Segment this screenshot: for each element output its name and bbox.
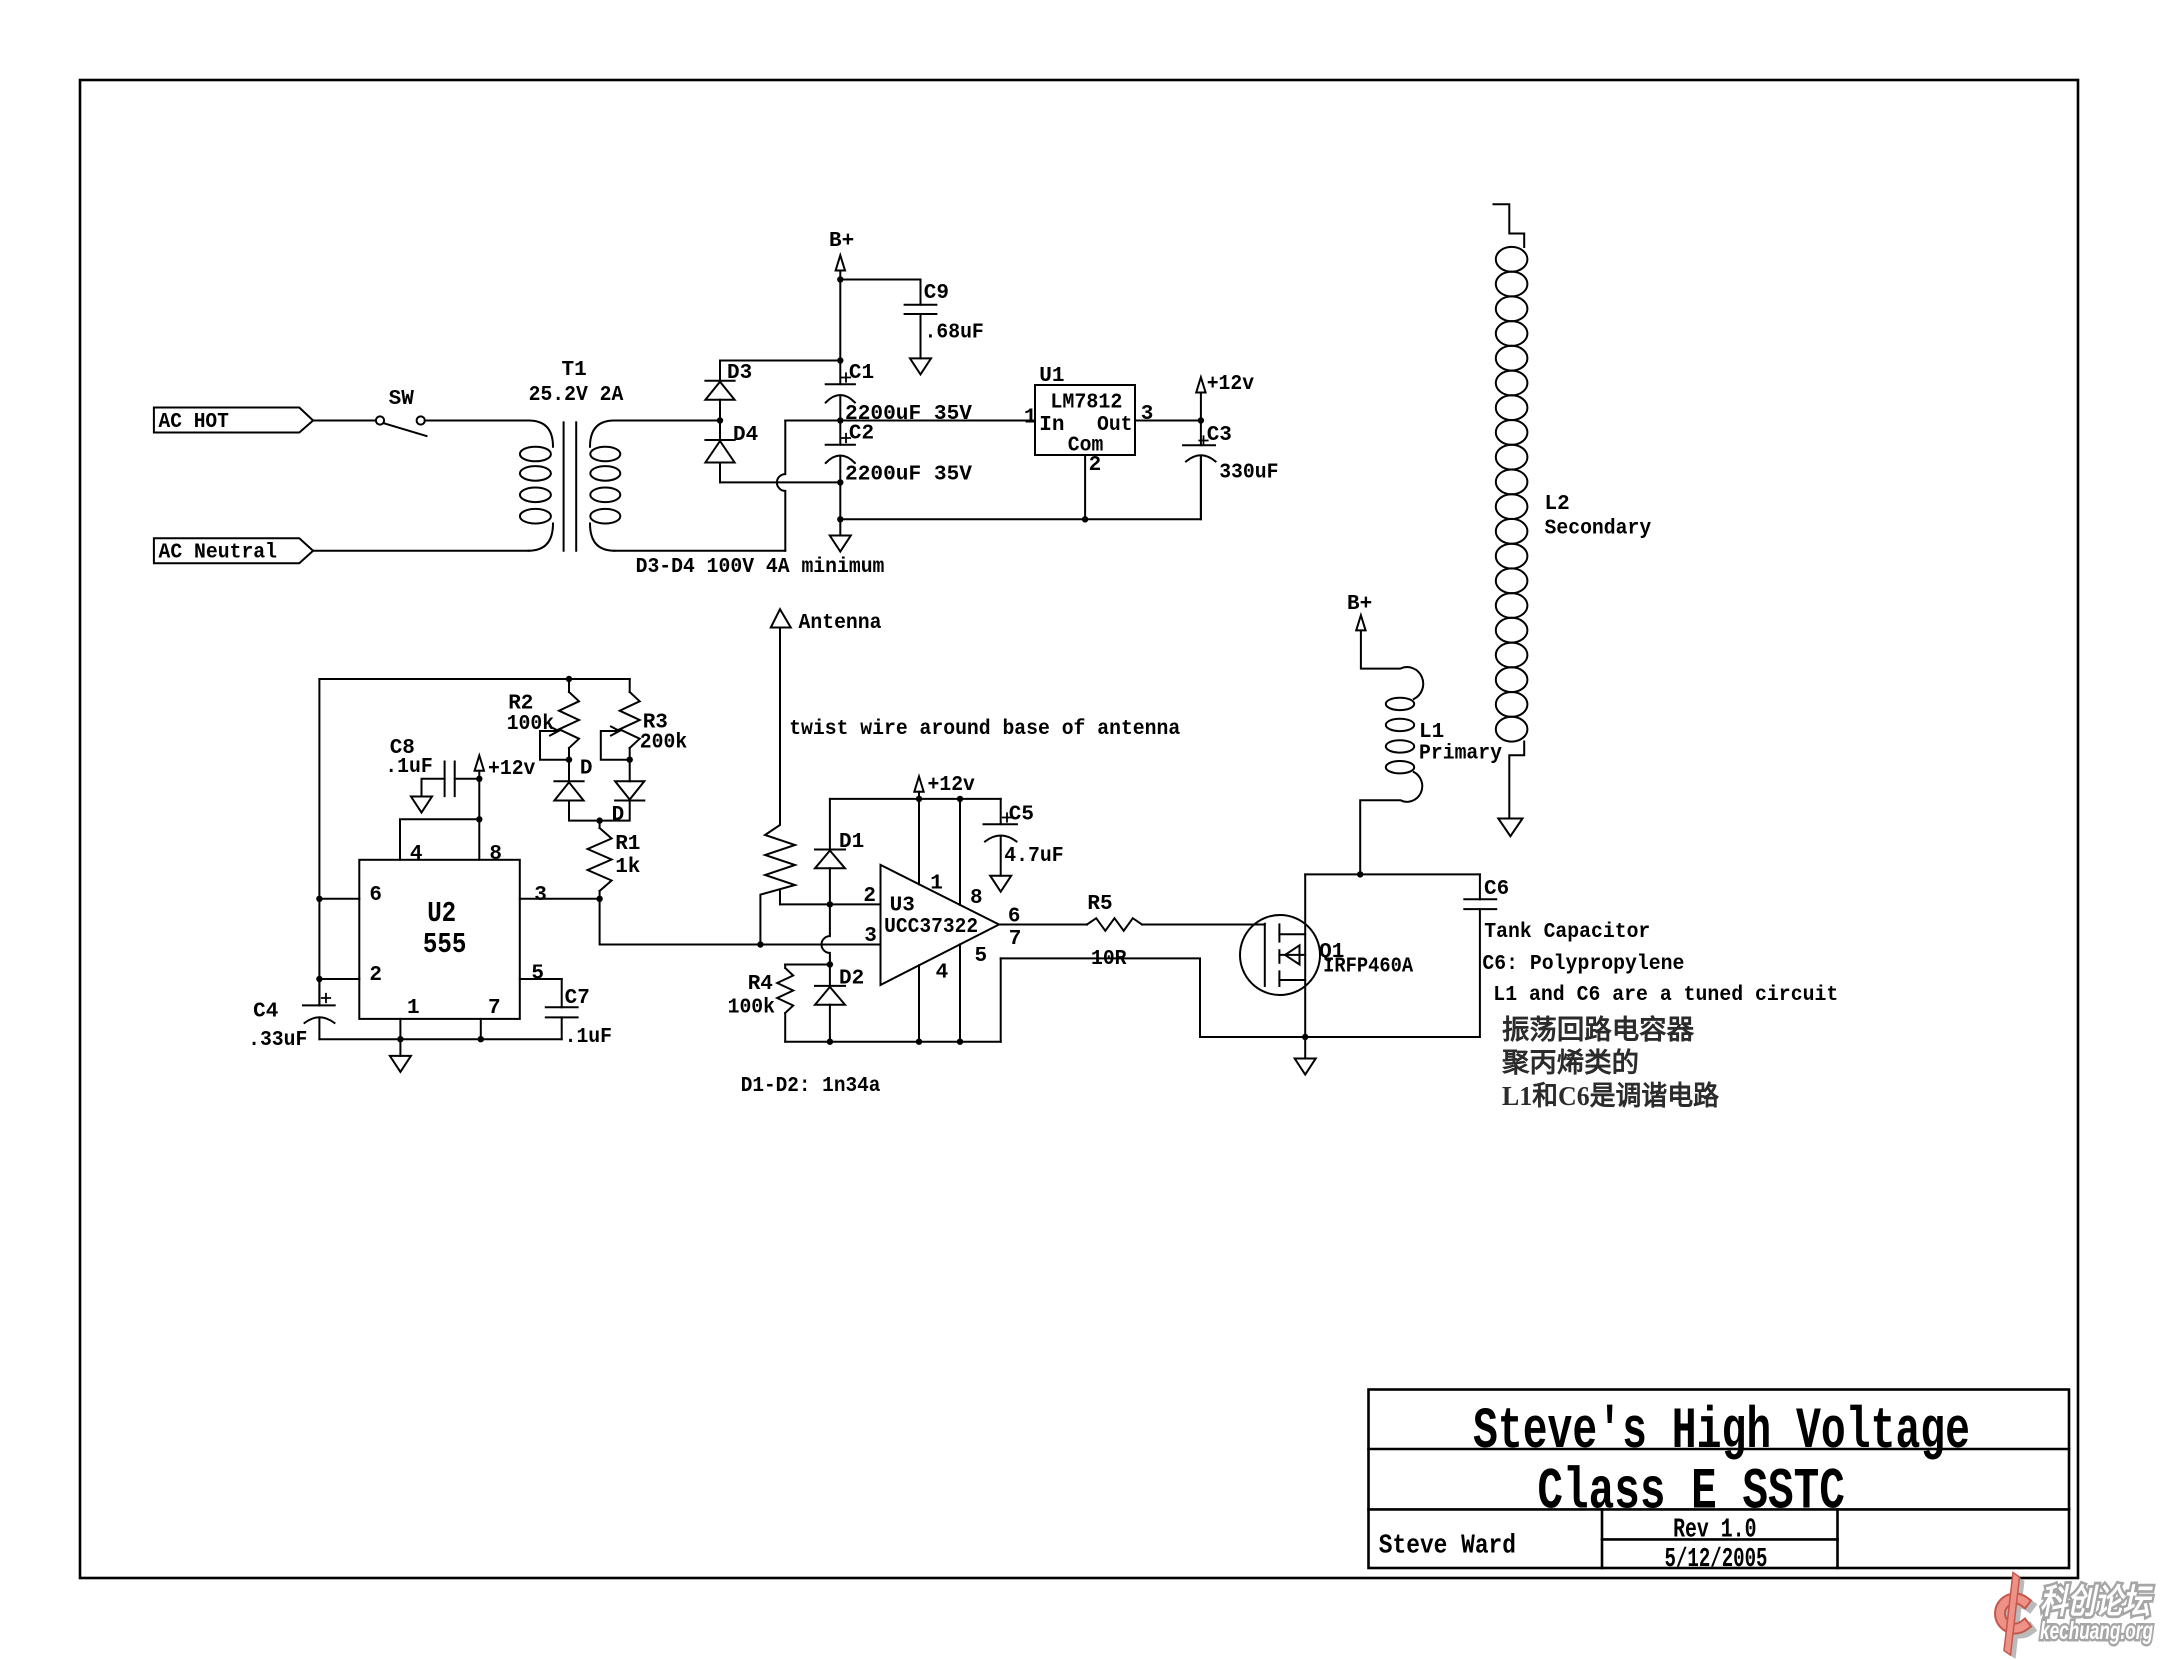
svg-text:3: 3 bbox=[1141, 403, 1154, 426]
node Antenna bbox=[771, 609, 882, 818]
diode D left steering bbox=[554, 758, 599, 821]
capacitor C5 4.7uF bbox=[984, 799, 1064, 876]
node J1 junction bbox=[717, 417, 723, 423]
pin 4 U3 bbox=[919, 962, 948, 1042]
svg-text:kechuang.org: kechuang.org bbox=[2040, 1617, 2153, 1645]
svg-text:U3: U3 bbox=[890, 895, 915, 918]
wire midpoint rail bbox=[785, 420, 1035, 422]
wire drain rail bbox=[1305, 873, 1480, 875]
svg-text:3: 3 bbox=[534, 884, 547, 907]
wire B+ vertical to C1 bbox=[839, 280, 841, 385]
wire 555 left vertical bbox=[318, 679, 320, 1005]
svg-text:Secondary: Secondary bbox=[1545, 518, 1652, 541]
resistor R5 10R bbox=[1087, 893, 1142, 971]
svg-text:Steve's High Voltage: Steve's High Voltage bbox=[1473, 1400, 1970, 1465]
svg-text:C2: C2 bbox=[849, 423, 874, 446]
svg-text:L1: L1 bbox=[1419, 721, 1444, 744]
svg-text:IRFP460A: IRFP460A bbox=[1323, 956, 1413, 979]
pin 4 U2 bbox=[400, 819, 479, 866]
ground under Q1 source bbox=[1295, 1037, 1316, 1075]
svg-text:.1uF: .1uF bbox=[565, 1026, 612, 1049]
power +12v at C3 bbox=[1196, 373, 1254, 421]
pin 7 U2 bbox=[481, 997, 501, 1039]
ground under C8 bbox=[411, 797, 432, 813]
svg-text:200k: 200k bbox=[640, 732, 687, 755]
wire antenna R to U3 pin2 bbox=[780, 903, 881, 905]
capacitor C8 .1uF bbox=[385, 737, 479, 797]
capacitor C9 .68uF bbox=[905, 282, 984, 358]
transformer T1 25.2V 2A bbox=[520, 359, 624, 551]
wire source bottom rail bbox=[1200, 1036, 1480, 1038]
svg-text:C1: C1 bbox=[849, 362, 874, 385]
ground under C5 bbox=[990, 876, 1011, 892]
resistor R1 1k bbox=[588, 821, 641, 899]
regulator U1 LM7812 bbox=[1035, 365, 1135, 458]
pin 1 U2 bbox=[400, 997, 419, 1039]
wire T1 secondary top to node J1 bbox=[614, 420, 720, 422]
wire U1 com down bbox=[1084, 455, 1086, 519]
wire 555 ground rail bbox=[319, 1038, 561, 1040]
svg-text:C9: C9 bbox=[924, 282, 949, 305]
svg-text:D: D bbox=[612, 804, 625, 827]
power B+ node top bbox=[829, 230, 854, 280]
svg-text:.1uF: .1uF bbox=[385, 756, 432, 779]
svg-text:振荡回路电容器: 振荡回路电容器 bbox=[1502, 1014, 1695, 1045]
pin 5 U2 bbox=[520, 963, 562, 986]
node AC HOT bbox=[154, 408, 313, 435]
svg-text:D3-D4 100V 4A minimum: D3-D4 100V 4A minimum bbox=[636, 556, 885, 579]
svg-text:100k: 100k bbox=[728, 997, 775, 1020]
IC U2 555 bbox=[359, 860, 520, 1019]
wire D1-D2 link with hop bbox=[822, 904, 830, 964]
node AC Neutral bbox=[154, 538, 313, 564]
svg-text:C6: C6 bbox=[1484, 878, 1509, 901]
wire U3 output to R5 bbox=[999, 924, 1087, 926]
svg-text:C3: C3 bbox=[1207, 424, 1232, 447]
svg-text:D3: D3 bbox=[727, 362, 752, 385]
pin 2 U2 bbox=[319, 964, 382, 987]
svg-text:UCC37322: UCC37322 bbox=[884, 916, 978, 939]
wire U3 rail riser bbox=[1000, 958, 1002, 1041]
watermark kechuang logo bbox=[2000, 1573, 2029, 1660]
svg-text:+12v: +12v bbox=[488, 758, 536, 781]
watermark kechuang text bbox=[2040, 1583, 2153, 1645]
svg-text:D2: D2 bbox=[839, 968, 864, 991]
wire D3 cathode to B+ rail bbox=[720, 360, 840, 362]
svg-text:T1: T1 bbox=[562, 359, 587, 382]
svg-text:555: 555 bbox=[423, 928, 467, 961]
pin 3 U2 output bbox=[520, 884, 600, 907]
svg-text:+12v: +12v bbox=[1207, 373, 1255, 396]
transistor Q1 IRFP460A bbox=[1240, 874, 1413, 1037]
svg-text:1: 1 bbox=[407, 997, 420, 1020]
svg-text:U2: U2 bbox=[427, 897, 456, 930]
svg-text:8: 8 bbox=[970, 887, 983, 910]
svg-text:twist wire around base of ante: twist wire around base of antenna bbox=[789, 718, 1180, 741]
svg-text:6: 6 bbox=[369, 884, 382, 907]
wire U1 out to C3 bbox=[1135, 420, 1201, 422]
diode D4 bbox=[705, 421, 758, 483]
L2 bottom terminal arrow bbox=[1498, 819, 1522, 837]
switch SW bbox=[376, 388, 427, 436]
wire 555 top rail bbox=[319, 678, 629, 680]
svg-text:C4: C4 bbox=[253, 1001, 278, 1024]
wire B+ to C9 bbox=[840, 280, 920, 305]
svg-text:LM7812: LM7812 bbox=[1050, 392, 1122, 415]
svg-text:6: 6 bbox=[1008, 906, 1021, 929]
svg-text:C7: C7 bbox=[565, 987, 590, 1010]
power +12v rail U3 bbox=[830, 774, 1001, 799]
svg-text:L1和C6是调谐电路: L1和C6是调谐电路 bbox=[1502, 1080, 1720, 1111]
wire switch to T1 primary bbox=[425, 420, 529, 422]
title block bbox=[1369, 1390, 2070, 1569]
wire source return jog bbox=[1001, 958, 1200, 1037]
diode D right steering bbox=[600, 760, 645, 827]
svg-text:8: 8 bbox=[489, 843, 502, 866]
svg-text:D: D bbox=[580, 758, 593, 781]
svg-text:100k: 100k bbox=[507, 713, 554, 736]
svg-text:In: In bbox=[1039, 414, 1064, 437]
svg-text:AC HOT: AC HOT bbox=[159, 411, 229, 434]
svg-text:Tank Capacitor: Tank Capacitor bbox=[1484, 921, 1650, 944]
svg-text:SW: SW bbox=[389, 388, 415, 411]
svg-text:1: 1 bbox=[1024, 407, 1037, 430]
wire ground rail to U1 and C3 bbox=[840, 458, 1201, 519]
svg-text:4: 4 bbox=[410, 843, 423, 866]
svg-text:AC Neutral: AC Neutral bbox=[159, 542, 278, 565]
resistor R3 200k pot bbox=[601, 679, 687, 760]
capacitor C4 .33uF bbox=[248, 979, 335, 1052]
resistor R4 100k bbox=[728, 965, 830, 1042]
svg-text:Antenna: Antenna bbox=[799, 612, 882, 635]
svg-text:D4: D4 bbox=[733, 424, 758, 447]
svg-text:330uF: 330uF bbox=[1219, 462, 1278, 485]
svg-text:10R: 10R bbox=[1091, 948, 1127, 971]
power +12v at 555 bbox=[475, 756, 536, 782]
svg-text:B+: B+ bbox=[1347, 593, 1372, 616]
svg-text:U1: U1 bbox=[1039, 365, 1064, 388]
svg-text:7: 7 bbox=[1009, 928, 1022, 951]
svg-text:5/12/2005: 5/12/2005 bbox=[1665, 1545, 1768, 1575]
pin 5 U3 bbox=[960, 944, 987, 1041]
wire AC Neutral to T1 primary bbox=[313, 550, 528, 552]
svg-text:5: 5 bbox=[531, 963, 544, 986]
wire +12v rail to D1 bbox=[829, 799, 831, 850]
capacitor C6 tank bbox=[1464, 874, 1509, 1037]
svg-text:B+: B+ bbox=[829, 230, 854, 253]
svg-text:.33uF: .33uF bbox=[248, 1029, 307, 1052]
svg-text:Rev 1.0: Rev 1.0 bbox=[1673, 1516, 1756, 1546]
svg-text:科创论坛: 科创论坛 bbox=[2040, 1583, 2153, 1621]
capacitor C7 .1uF bbox=[546, 979, 612, 1049]
wire 555 out to U3 pin3 bbox=[600, 899, 881, 945]
wire D4 anode to C2 bottom bbox=[720, 481, 840, 483]
op-amp U3 UCC37322 driver bbox=[881, 865, 1000, 985]
svg-text:聚丙烯类的: 聚丙烯类的 bbox=[1501, 1047, 1639, 1078]
svg-text:R4: R4 bbox=[748, 973, 773, 996]
svg-text:4.7uF: 4.7uF bbox=[1004, 845, 1063, 868]
power B+ node at L1 bbox=[1347, 593, 1372, 630]
ground under C2 bbox=[830, 519, 851, 551]
svg-text:4: 4 bbox=[936, 962, 949, 985]
svg-text:D1-D2: 1n34a: D1-D2: 1n34a bbox=[741, 1075, 881, 1098]
svg-text:Primary: Primary bbox=[1419, 743, 1502, 766]
svg-text:C5: C5 bbox=[1009, 804, 1034, 827]
svg-text:L1 and C6 are a tuned circuit: L1 and C6 are a tuned circuit bbox=[1493, 984, 1838, 1007]
pin 8 U3 bbox=[960, 799, 983, 910]
svg-text:2: 2 bbox=[369, 964, 382, 987]
capacitor C1 2200uF bbox=[826, 362, 973, 426]
svg-text:D1: D1 bbox=[839, 831, 864, 854]
pin 6 U2 bbox=[319, 884, 382, 907]
inductor L1 primary coil bbox=[1360, 631, 1502, 875]
label Chinese annotation bbox=[1501, 1014, 1720, 1111]
pin 8 U2 bbox=[479, 779, 502, 866]
svg-text:1: 1 bbox=[930, 873, 943, 896]
wire U3 ground rail bbox=[785, 1041, 1001, 1043]
wire AC HOT to switch bbox=[313, 420, 376, 422]
pin 1 U3 bbox=[919, 799, 943, 896]
svg-text:R1: R1 bbox=[615, 833, 640, 856]
ground under C9 bbox=[910, 358, 931, 374]
svg-text:1k: 1k bbox=[615, 856, 640, 879]
svg-text:C6: Polypropylene: C6: Polypropylene bbox=[1482, 953, 1684, 976]
svg-text:2: 2 bbox=[1089, 454, 1102, 477]
diode D3 bbox=[705, 361, 752, 421]
svg-text:7: 7 bbox=[488, 997, 501, 1020]
wire C2 to ground rail bbox=[839, 482, 841, 519]
inductor L2 secondary coil bbox=[1494, 204, 1652, 818]
wire T1 secondary bottom bbox=[614, 550, 785, 552]
wire T1 secondary bottom riser with hop bbox=[777, 421, 785, 551]
svg-text:+12v: +12v bbox=[928, 774, 976, 797]
wire R5 to Q1 gate bbox=[1142, 924, 1265, 926]
svg-text:Steve Ward: Steve Ward bbox=[1379, 1532, 1516, 1562]
diode D1 bbox=[815, 831, 864, 904]
svg-text:2200uF 35V: 2200uF 35V bbox=[845, 464, 972, 487]
capacitor C2 2200uF bbox=[826, 421, 973, 487]
resistor R2 100k pot bbox=[507, 679, 579, 760]
diode D2 bbox=[815, 965, 864, 1042]
svg-text:5: 5 bbox=[975, 945, 988, 968]
svg-text:25.2V 2A: 25.2V 2A bbox=[529, 384, 624, 407]
svg-text:L2: L2 bbox=[1545, 493, 1570, 516]
svg-text:R5: R5 bbox=[1087, 893, 1112, 916]
ground under U2 bbox=[390, 1039, 411, 1072]
capacitor C3 330uF bbox=[1183, 421, 1278, 520]
resistor antenna coupling bbox=[760, 818, 795, 944]
svg-text:.68uF: .68uF bbox=[925, 322, 984, 345]
